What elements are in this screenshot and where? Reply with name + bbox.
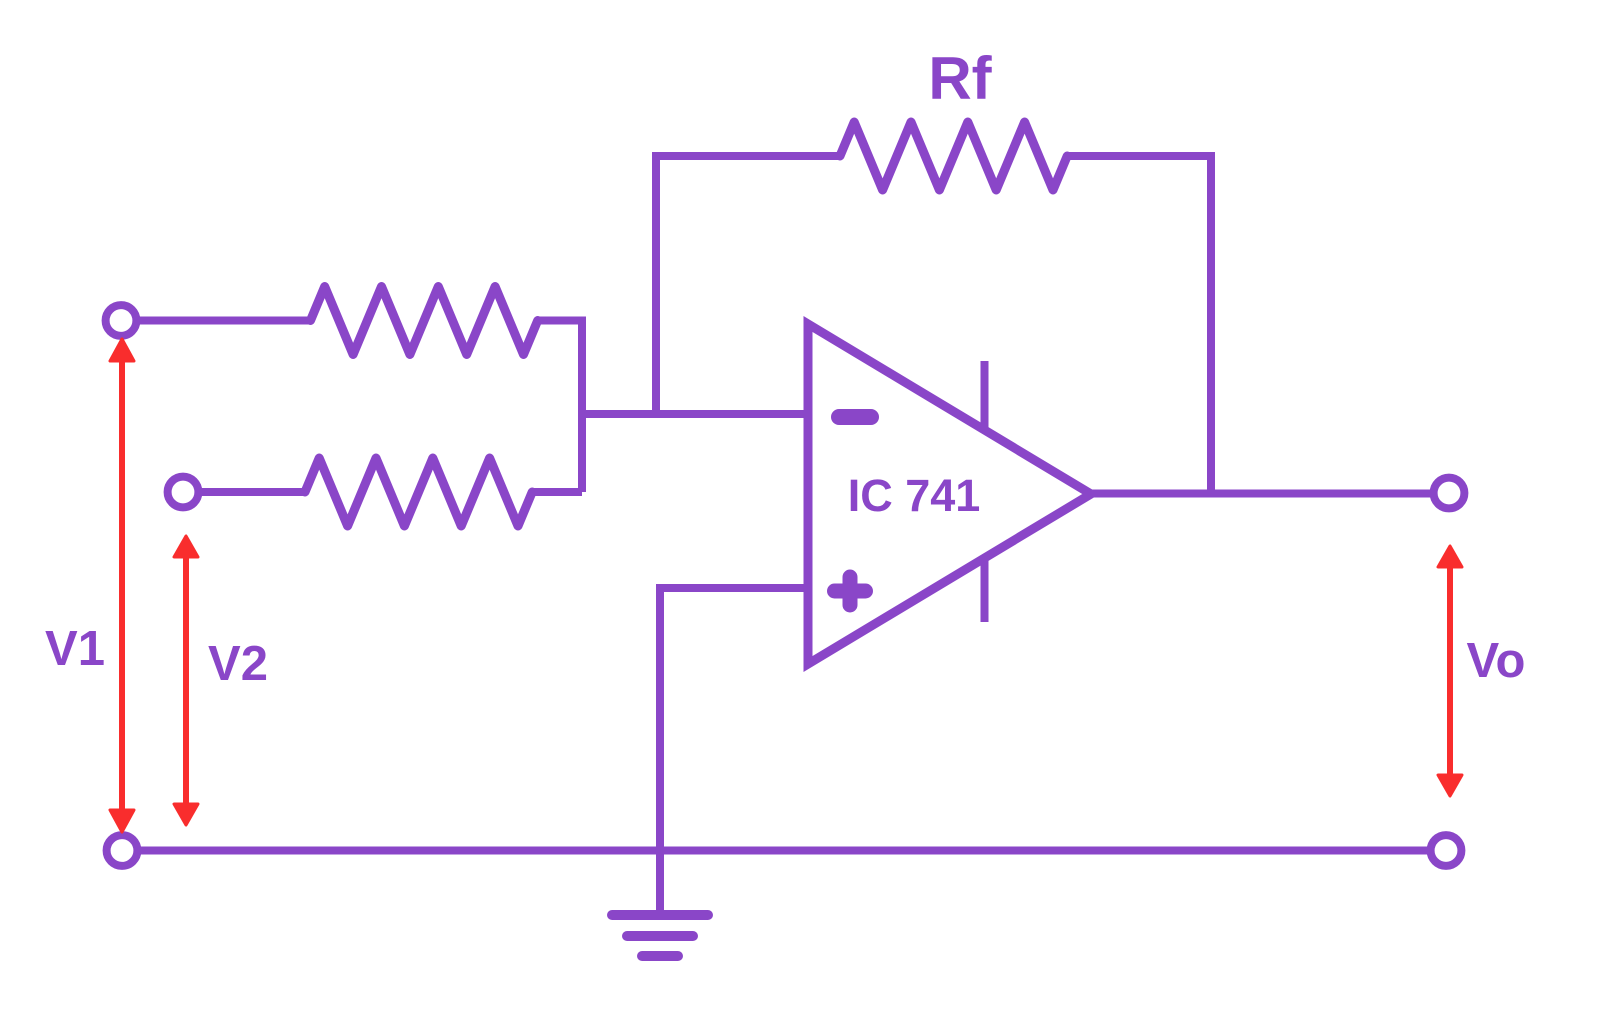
wire: input lead V1 — [134, 317, 312, 325]
arrow V1 — [110, 339, 134, 832]
arrow V2 — [174, 536, 198, 825]
wire: bottom ground rail — [122, 847, 1446, 855]
terminal node bottom left — [107, 835, 138, 866]
wire: inverting input node to op-amp — [578, 410, 808, 418]
terminal node output Vo — [1434, 478, 1465, 509]
op-amp positive supply pin — [981, 361, 989, 430]
terminal node V1 input — [106, 305, 137, 336]
op-amp U1 triangle — [808, 324, 1091, 664]
svg-text:V2: V2 — [208, 637, 268, 691]
op-amp non-inverting input plus sign — [835, 577, 866, 605]
svg-text:IC 741: IC 741 — [848, 470, 981, 521]
arrow Vo — [1438, 546, 1462, 796]
wire: feedback loop left and top — [656, 156, 842, 414]
resistor R2 — [305, 458, 532, 526]
wire: feedback loop right side down to output — [1065, 156, 1211, 494]
svg-text:Vo: Vo — [1467, 634, 1526, 688]
terminal node bottom right — [1431, 835, 1462, 866]
svg-text:Rf: Rf — [928, 45, 992, 112]
ground symbol — [612, 915, 708, 956]
svg-text:V1: V1 — [45, 622, 105, 676]
wire: R1 to junction bar down to inverting node — [536, 321, 582, 493]
wire: non-inverting input to ground stem — [660, 588, 808, 915]
wire: input lead V2 — [196, 488, 307, 496]
wire: R2 to junction bar — [531, 488, 583, 496]
resistor Rf — [840, 122, 1067, 190]
op-amp inverting input minus sign — [839, 409, 871, 425]
resistor R1 — [311, 287, 538, 355]
wire: op-amp output to output terminal — [1091, 490, 1449, 498]
terminal node V2 input — [168, 477, 199, 508]
op-amp negative supply pin — [981, 558, 989, 622]
